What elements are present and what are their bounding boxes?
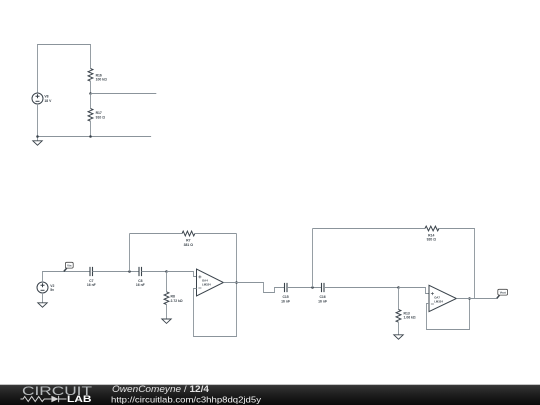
- svg-text:16 nF: 16 nF: [136, 283, 145, 287]
- node ground rail left: [36, 135, 39, 138]
- node Vin flag: [64, 262, 73, 271]
- wire R13 bottom lead: [398, 322, 400, 334]
- node R17 to rail: [89, 135, 92, 138]
- wire C15 to node B: [287, 287, 322, 289]
- svg-text:R8: R8: [171, 295, 175, 299]
- wire R13 top lead: [398, 288, 400, 310]
- resistor R7: [182, 231, 195, 236]
- node output junction: [235, 281, 238, 284]
- svg-text:OwenComeyne / 12/4: OwenComeyne / 12/4: [112, 384, 209, 394]
- svg-text:920 Ω: 920 Ω: [427, 238, 437, 242]
- op-amp OA4: [197, 269, 224, 296]
- wire inverting input loop: [194, 234, 237, 337]
- svg-text:R17: R17: [96, 111, 102, 115]
- wire C16 to R13 node: [324, 287, 399, 289]
- wire output2: [456, 298, 496, 300]
- node output2 junction: [468, 297, 471, 300]
- svg-text:18 V: 18 V: [44, 99, 52, 103]
- footer bar: [0, 384, 540, 405]
- ground (under V2): [38, 303, 47, 307]
- wire to op-amp noninverting jog: [167, 272, 197, 277]
- wire R17 bottom lead: [90, 121, 92, 136]
- wire mid tap horizontal: [91, 93, 157, 95]
- wire R8 bottom lead: [166, 305, 168, 320]
- svg-text:LM324: LM324: [202, 283, 211, 287]
- node R13 tap: [397, 286, 400, 289]
- svg-text:381 Ω: 381 Ω: [184, 243, 194, 247]
- wire C7 to node A: [93, 271, 140, 273]
- svg-text:16 nF: 16 nF: [281, 299, 290, 303]
- wire node A up: [129, 234, 131, 272]
- capacitor C7: [90, 267, 93, 276]
- svg-text:1.06 kΩ: 1.06 kΩ: [404, 316, 416, 320]
- svg-text:Vin: Vin: [67, 264, 72, 268]
- node A junction: [128, 270, 131, 273]
- wire top horizontal V8 to R16: [38, 45, 91, 94]
- ground (top-left): [33, 141, 42, 145]
- svg-text:V8: V8: [44, 95, 48, 99]
- resistor R16: [88, 69, 93, 82]
- wire bottom rail: [38, 136, 152, 138]
- wire feedback2 top left: [313, 228, 425, 230]
- wire output with jog to stage 2: [223, 283, 284, 293]
- logo resistor-diode squiggle: [21, 396, 67, 402]
- wire feedback2 top right: [438, 229, 475, 299]
- wire V2 top lead: [43, 272, 91, 283]
- resistor R17: [88, 109, 93, 122]
- node B junction: [311, 286, 314, 289]
- wire V8 bottom lead: [37, 104, 39, 141]
- ground (under R8): [162, 319, 171, 323]
- svg-text:LAB: LAB: [67, 394, 92, 404]
- wire feedback top right: [195, 233, 237, 235]
- wire C8 to R8 node: [142, 271, 167, 273]
- svg-text:16 nF: 16 nF: [87, 283, 96, 287]
- wire R17 top lead: [90, 94, 92, 109]
- svg-text:http://circuitlab.com/c3hhp8dq: http://circuitlab.com/c3hhp8dq2jd5y: [111, 394, 262, 404]
- wire V2 bottom lead: [42, 293, 44, 303]
- capacitor C16: [322, 283, 325, 292]
- svg-text:2.72 kΩ: 2.72 kΩ: [171, 299, 183, 303]
- node Vout flag: [497, 289, 508, 298]
- capacitor C8: [139, 267, 142, 276]
- svg-text:5v: 5v: [50, 288, 54, 292]
- op-amp OA7: [429, 285, 456, 311]
- wire inverting input loop 2: [427, 299, 470, 330]
- wire R8 top lead: [166, 272, 168, 292]
- svg-text:910 Ω: 910 Ω: [96, 115, 106, 119]
- svg-text:LM324: LM324: [434, 299, 443, 303]
- resistor R13: [396, 310, 401, 323]
- voltage source V8: [32, 93, 43, 104]
- resistor R14: [425, 226, 439, 231]
- voltage source V2: [37, 282, 48, 293]
- wire feedback top left: [130, 233, 183, 235]
- ground (under R13): [394, 335, 403, 339]
- wire to op-amp2 noninverting jog: [399, 288, 430, 294]
- svg-text:100 kΩ: 100 kΩ: [96, 78, 107, 82]
- wire node B up: [312, 229, 314, 288]
- svg-text:16 nF: 16 nF: [318, 299, 327, 303]
- node R8 tap: [165, 270, 168, 273]
- svg-text:Vout: Vout: [500, 291, 506, 295]
- resistor R8: [164, 292, 169, 305]
- node divider mid tap: [89, 92, 92, 95]
- capacitor C15: [285, 283, 288, 292]
- wire R16 bottom lead to node: [90, 81, 92, 93]
